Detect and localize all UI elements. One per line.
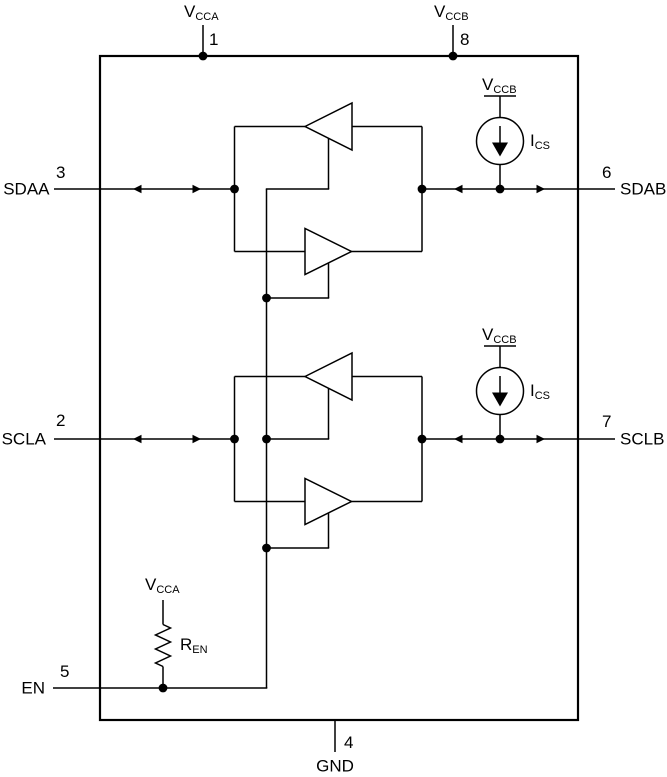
label VCCA (pin 1) (184, 2, 219, 23)
wire VCCB supply bar (ICS2) (484, 345, 516, 347)
wire REN bottom stub (162, 667, 164, 689)
current source ICS2 arrow (492, 376, 508, 407)
wire SDAA (54, 188, 234, 190)
buffer U1A (left-pointing) (305, 103, 352, 150)
svg-text:3: 3 (56, 163, 65, 182)
wire ICS2 bottom stub (499, 415, 501, 440)
wire ICS2 top stub (499, 346, 501, 368)
wire U2A enable stub (266, 388, 329, 439)
arrow left on SDAB wire (454, 185, 463, 193)
svg-text:EN: EN (21, 679, 45, 698)
label ICS2 (530, 381, 550, 402)
node ICS1 output dot (496, 185, 505, 194)
wire EN riser vertical (266, 189, 268, 688)
current source ICS2 circle (477, 368, 524, 415)
svg-text:2: 2 (56, 411, 65, 430)
label EN (21, 679, 45, 698)
pin number 3 (56, 163, 65, 182)
label GND (316, 757, 354, 776)
wire U1A enable stub (266, 138, 329, 189)
pin number 4 (344, 733, 353, 752)
wire SCLA (54, 438, 234, 440)
current source ICS1 circle (477, 118, 524, 165)
wire SDA cell top right (352, 126, 422, 128)
wire SDA cell bottom right (352, 251, 423, 253)
pin number 7 (602, 412, 611, 431)
pin number 6 (602, 163, 611, 182)
label SDAA (3, 180, 50, 199)
arrow left on SDAA wire (133, 185, 142, 193)
node REN junction dot (159, 684, 168, 693)
buffer U2A (left-pointing) (305, 353, 352, 400)
node EN riser junction dot (SCL upper) (262, 435, 271, 444)
svg-text:SDAB: SDAB (620, 180, 666, 199)
arrow left on SCLA wire (133, 435, 142, 443)
label SCLA (2, 430, 47, 449)
wire SDA cell right vertical (421, 127, 423, 252)
arrow right on SDAB wire (537, 185, 546, 193)
wire VCCB supply bar (ICS1) (484, 95, 516, 97)
resistor REN zigzag (156, 625, 171, 667)
svg-text:SDAA: SDAA (3, 180, 50, 199)
svg-text:GND: GND (316, 757, 354, 776)
svg-text:8: 8 (460, 30, 469, 49)
wire SCL cell bottom left (235, 501, 306, 503)
wire SDA cell left vertical (234, 127, 236, 252)
pin 4 wire stub (GND) (334, 720, 336, 752)
arrow left on SCLB wire (454, 435, 463, 443)
wire SCL cell left vertical (234, 377, 236, 502)
node SCLB junction dot (418, 435, 427, 444)
arrow right on SCLA wire (193, 435, 202, 443)
wire ICS1 top stub (499, 96, 501, 118)
pin number 1 (209, 30, 218, 49)
svg-text:6: 6 (602, 163, 611, 182)
buffer U2B (right-pointing) (305, 479, 352, 525)
node VCCB pin 8 junction dot (449, 52, 458, 61)
wire SCL cell top left (235, 376, 306, 378)
label SDAB (620, 180, 666, 199)
IC boundary box (100, 56, 578, 720)
wire SDAB (422, 188, 615, 190)
label REN (180, 635, 208, 656)
node SCLA junction dot (230, 435, 239, 444)
wire SCLB (422, 438, 615, 440)
pin number 2 (56, 411, 65, 430)
label SCLB (620, 430, 664, 449)
wire U1B enable stub (266, 263, 329, 298)
arrow right on SDAA wire (193, 185, 202, 193)
svg-text:7: 7 (602, 412, 611, 431)
wire SCL cell bottom right (352, 501, 423, 503)
svg-text:5: 5 (60, 662, 69, 681)
svg-text:1: 1 (209, 30, 218, 49)
wire SCL cell top right (352, 376, 422, 378)
label ICS1 (530, 131, 550, 152)
label VCCB (ICS1 supply) (482, 75, 517, 96)
pin number 8 (460, 30, 469, 49)
node SDAA junction dot (230, 185, 239, 194)
svg-text:SCLB: SCLB (620, 430, 664, 449)
pin 8 wire stub (452, 25, 454, 56)
current source ICS1 arrow (492, 126, 508, 157)
arrow right on SCLB wire (537, 435, 546, 443)
node VCCA pin 1 junction dot (199, 52, 208, 61)
pin number 5 (60, 662, 69, 681)
label VCCA (REN supply) (145, 575, 180, 596)
label VCCB (ICS2 supply) (482, 325, 517, 346)
wire SDA cell bottom left (235, 251, 306, 253)
wire ICS1 bottom stub (499, 165, 501, 190)
svg-text:4: 4 (344, 733, 353, 752)
label VCCB (pin 8) (434, 2, 469, 23)
wire REN top stub (162, 600, 164, 625)
buffer U1B (right-pointing) (305, 229, 352, 275)
wire U2B enable stub (266, 513, 329, 548)
wire EN (53, 687, 267, 689)
node EN riser junction dot (SDA lower) (262, 294, 271, 303)
pin 1 wire stub (202, 25, 204, 56)
node EN riser junction dot (SCL lower) (262, 544, 271, 553)
wire SDA cell top left (235, 126, 306, 128)
wire SCL cell right vertical (421, 377, 423, 502)
node SDAB junction dot (418, 185, 427, 194)
svg-text:SCLA: SCLA (2, 430, 47, 449)
node ICS2 output dot (496, 435, 505, 444)
